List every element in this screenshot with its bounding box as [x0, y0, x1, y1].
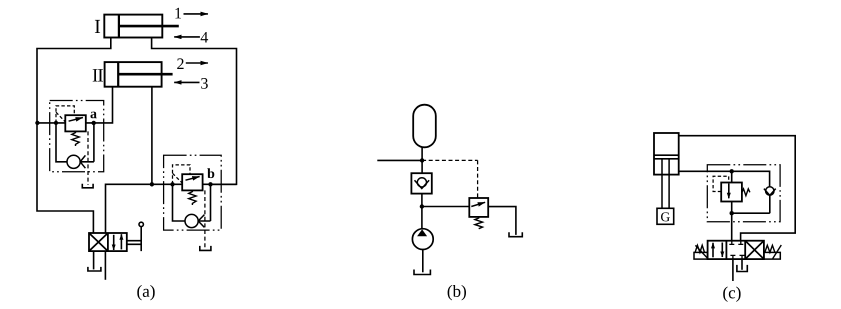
wire: accumulator to check valve [421, 147, 423, 173]
junction: balance valve inlet / bypass top [730, 169, 734, 173]
balance valve: pilot line [713, 176, 729, 191]
label I [95, 20, 100, 33]
node b label [207, 168, 214, 178]
junction: valve-a pilot and bypass tap [54, 121, 58, 125]
wire: cyl I rod port to right rail down to node b [152, 38, 237, 185]
solenoid right [764, 245, 781, 259]
sequence valve a: body square [65, 115, 86, 131]
cylinder I [104, 15, 179, 38]
check valve b: ball [185, 214, 198, 227]
directional valve (a): parallel arrows [113, 235, 115, 250]
check valve a: bypass line left [56, 123, 67, 162]
check valve a: ball [67, 155, 80, 168]
pump (b) [412, 229, 433, 250]
balance valve: flow arrow [728, 184, 730, 199]
wire: system supply stub [377, 159, 422, 161]
sequence valve b: drain line [204, 190, 206, 248]
sequence valve a: spring [72, 131, 79, 146]
wire: junction to relief valve inlet [422, 206, 469, 208]
sequence valve b: body square [182, 174, 202, 190]
check valve (b): square [411, 173, 431, 193]
relief valve (b): tank [509, 232, 522, 236]
directional valve (c): right position crossed [745, 241, 764, 259]
accumulator [413, 105, 436, 148]
check valve b: seat [198, 215, 204, 228]
directional valve (a): divider [107, 233, 109, 251]
relief valve (b): body square [469, 198, 488, 217]
label 2 with arrow [177, 58, 208, 69]
wire: inlet down through valve to directional valve [731, 171, 733, 240]
wire: cylinder bottom port to balance valve [679, 170, 732, 172]
solenoid left [694, 245, 708, 259]
relief valve (b): flow arrow [471, 202, 485, 206]
pilot line to relief valve [422, 160, 478, 197]
wire: cyl I cap port to left rail down to valve A port [37, 38, 111, 234]
cylinder (c) [654, 133, 679, 175]
directional valve (a): tank port line [93, 251, 95, 269]
directional valve (a): tank [88, 267, 101, 271]
sequence valve b: drain tank [200, 246, 211, 251]
wire: cylinder top port to right rail to valve B port [679, 136, 796, 241]
directional valve (c): dividers [726, 241, 745, 259]
wire: node a to cylinder II cap port [86, 87, 113, 123]
node b [208, 182, 212, 186]
wire: left rail to sequence-valve-a inlet [37, 122, 65, 124]
relief valve (b): outlet to tank [488, 207, 516, 235]
sequence valve b: pilot diagonal [173, 173, 183, 183]
label (c) [723, 287, 740, 302]
cylinder II [105, 62, 173, 87]
sequence valve a: pilot line [56, 106, 74, 123]
check valve (c): bypass top [732, 171, 770, 187]
directional valve (c): pump port line [732, 259, 734, 281]
check valve (c): ball [766, 187, 774, 195]
directional valve (c): body [708, 241, 764, 259]
check valve (c): bypass bottom [732, 195, 770, 213]
node a [92, 121, 96, 125]
sequence valve b: enclosure [164, 155, 222, 230]
sequence valve b: spring [189, 190, 196, 205]
check valve (b): ball [417, 178, 426, 187]
directional valve (c): tank [737, 265, 747, 272]
balance valve: spring [742, 189, 750, 196]
wire: valve B port up and right to valve-b inlet [106, 184, 183, 233]
wire: check valve to pump [421, 194, 423, 229]
junction: cylinder II rod line / bus [150, 182, 154, 186]
label (a) [137, 285, 154, 300]
label II [93, 69, 103, 81]
junction: rail / valve-a inlet [35, 121, 39, 125]
wire: cylinder II rod port down [151, 87, 153, 185]
check valve (b): seat [415, 180, 430, 188]
sequence valve a: drain line [87, 131, 89, 185]
junction: balance valve outlet / bypass bottom [730, 211, 734, 215]
label 3 with arrow [174, 78, 208, 89]
check valve a: bypass line right [80, 123, 94, 162]
cylinder (c): rod [662, 159, 669, 208]
label 1 with arrow [175, 8, 208, 19]
sequence valve b: pilot line [173, 165, 191, 184]
check valve b: bypass line left [173, 184, 185, 221]
directional valve (c): tank port [741, 259, 743, 270]
balance valve: body square [721, 183, 742, 202]
sequence valve a: flow arrow [69, 118, 83, 122]
load weight G [657, 208, 674, 224]
wire: pump to tank [422, 250, 424, 273]
check valve (c): seat [764, 189, 776, 196]
directional valve (c): left position arrows [712, 243, 714, 257]
wire: valve-b outlet to right rail [203, 183, 237, 185]
directional valve (c): closed center stubs [729, 241, 744, 259]
sequence valve a: pilot diagonal [56, 112, 65, 122]
directional valve (a): crossed position [89, 233, 108, 251]
label (b) [448, 285, 466, 300]
junction: accumulator tap [420, 158, 424, 162]
label 4 with arrow [174, 32, 208, 43]
sequence valve b: flow arrow [186, 177, 200, 181]
relief valve (b): spring [475, 217, 483, 229]
node a label [91, 112, 97, 119]
sequence valve a: drain tank [82, 184, 93, 188]
junction: valve-b pilot and bypass tap [170, 182, 174, 186]
pump (b): triangle [417, 229, 427, 236]
directional valve (a): body [89, 233, 127, 251]
pump tank (b) [414, 270, 430, 275]
junction: relief valve tap [420, 204, 424, 208]
sequence valve a: enclosure [50, 101, 104, 172]
balance valve: enclosure [707, 165, 780, 222]
directional valve (a): lever [127, 222, 144, 251]
check valve a: seat [80, 155, 85, 168]
directional valve (a): pump port line [104, 251, 106, 280]
check valve b: bypass line right [198, 184, 210, 221]
